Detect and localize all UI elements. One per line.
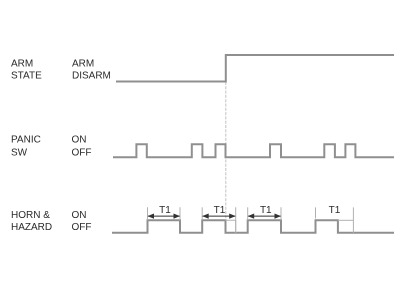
node T1 dimension 3 right extension tick [280,207,282,220]
svg-text:SW: SW [11,148,28,159]
svg-text:ON: ON [72,210,87,221]
node T1 dimension 2 right extension tick (merges with phantom fall) [235,207,237,232]
svg-text:STATE: STATE [11,70,42,81]
node T1 dimension 3 right arrowhead [275,214,282,219]
node T1 dimension 3 left extension tick [247,207,249,220]
svg-text:T1: T1 [214,205,226,216]
svg-text:T1: T1 [260,205,272,216]
node T1 dimension 1 left arrowhead [148,214,155,219]
svg-text:OFF: OFF [72,148,92,159]
svg-text:ON: ON [72,134,87,145]
node T1 dimension 2 right arrowhead [229,214,236,219]
wire T1 dimension 2 arrow line [203,215,236,217]
node T1 dimension 4 left extension tick [315,207,317,218]
node T1 dimension 1 right arrowhead [174,214,181,219]
node T1 dimension 4 right extension tick (phantom fall of pulse 4) [352,207,354,233]
node T1 dimension 2 left arrowhead [202,214,209,219]
node T1 dimension 1 right extension tick [179,207,181,220]
wire ARM STATE waveform (disarm low, step up at panic arm, arm high) [116,55,394,82]
svg-text:OFF: OFF [72,222,92,233]
node T1 dimension 1 left extension tick [147,207,149,220]
node T1 dimension 2 left extension tick [201,207,203,220]
svg-text:ARM: ARM [72,58,94,69]
node T1 dimension 3 left arrowhead [248,214,255,219]
svg-text:HAZARD: HAZARD [11,222,52,233]
svg-text:ARM: ARM [11,58,33,69]
svg-text:HORN &: HORN & [11,210,50,221]
wire PANIC SW waveform with six pulses [113,144,394,157]
wire T1 dimension 3 arrow line [248,215,280,217]
wire phantom continuation of horn pulse 4 to full T1 [338,219,354,221]
svg-text:PANIC: PANIC [11,134,41,145]
node ARM-transition dashed reference line [225,82,227,220]
wire phantom continuation of horn pulse 2 to full T1 [226,220,236,232]
wire T1 dimension 1 arrow line [148,215,180,217]
svg-text:DISARM: DISARM [72,70,111,81]
wire HORN & HAZARD waveform with four pulses [112,220,394,232]
svg-text:T1: T1 [159,205,171,216]
svg-text:T1: T1 [329,205,341,216]
